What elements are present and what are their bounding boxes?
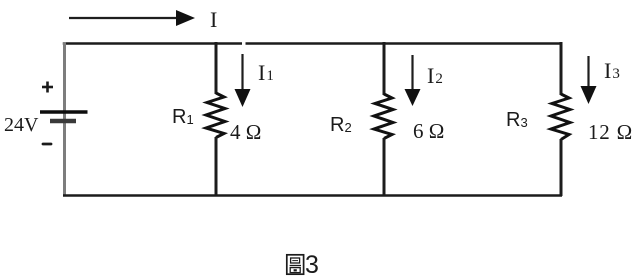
wire right (upper)	[560, 42, 563, 95]
battery B1	[40, 112, 88, 121]
svg-text:I: I	[210, 7, 217, 32]
wire right (lower)	[560, 139, 563, 196]
svg-text:I2: I2	[427, 63, 443, 88]
current arrow I2	[405, 55, 421, 106]
resistor R2	[374, 94, 393, 139]
caption glyph tu (figure)	[287, 255, 304, 274]
battery minus sign	[43, 143, 51, 146]
svg-text:I1: I1	[258, 60, 274, 85]
svg-text:12 Ω: 12 Ω	[588, 120, 633, 144]
svg-text:R2: R2	[330, 114, 352, 136]
wire branch 2 (lower)	[383, 138, 386, 196]
resistor R1	[206, 93, 225, 138]
svg-text:3: 3	[305, 251, 319, 279]
battery plus sign	[42, 82, 53, 93]
current arrow I1	[235, 54, 251, 107]
svg-text:R1: R1	[172, 106, 194, 128]
current arrow I3	[581, 56, 597, 104]
wire branch 1 (upper)	[215, 42, 218, 94]
svg-text:4 Ω: 4 Ω	[230, 120, 261, 144]
wire branch 2 (upper)	[383, 42, 386, 95]
current arrow I (top)	[69, 10, 195, 26]
svg-text:R3: R3	[506, 109, 528, 131]
wire bottom	[63, 194, 562, 196]
wire top	[63, 42, 562, 45]
svg-text:24V: 24V	[4, 114, 39, 136]
svg-text:I3: I3	[604, 58, 620, 83]
svg-text:6 Ω: 6 Ω	[413, 119, 444, 143]
wire branch 1 (lower)	[215, 137, 218, 196]
resistor R3	[551, 94, 570, 140]
wire left	[63, 43, 66, 197]
